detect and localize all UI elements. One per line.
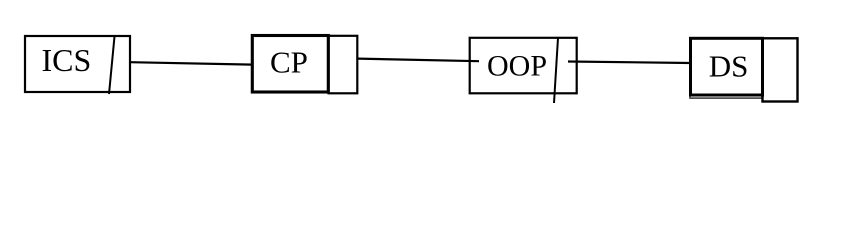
block CP main [252,36,328,93]
slash in ICS [109,37,115,95]
wire CP-OOP [358,59,479,62]
svg-text:ICS: ICS [42,42,92,78]
block OOP [470,38,577,94]
svg-text:CP: CP [270,44,308,79]
block DS shadow [690,38,762,98]
block ICS [25,36,130,92]
block CP tab [329,36,358,94]
block DS tab [763,38,798,101]
block DS main [691,38,763,95]
slash in OOP [554,38,558,103]
wire ICS-CP [130,62,253,64]
wire OOP-DS [568,62,691,64]
svg-text:DS: DS [709,49,749,84]
svg-text:OOP: OOP [487,49,547,82]
